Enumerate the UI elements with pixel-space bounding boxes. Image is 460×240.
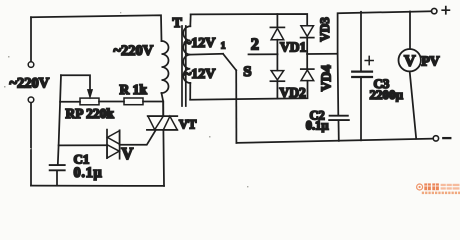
wire: bottom rail left section [31,185,164,187]
svg-text:~220V: ~220V [114,43,154,59]
svg-text:VT: VT [179,117,197,131]
capacitor C1 [50,165,65,185]
voltmeter PV [399,12,421,139]
diode VD1 [270,14,284,54]
terminal: AC input upper [28,62,34,68]
svg-text:V: V [121,144,133,163]
wire: left rail of phase network [58,75,61,165]
wiper arrowhead [88,90,93,98]
transformer T primary winding [162,41,169,93]
svg-text:~220V: ~220V [10,76,50,92]
svg-text:2200µ: 2200µ [370,87,404,102]
svg-text:0.1µ: 0.1µ [74,165,103,181]
svg-text:VD1: VD1 [280,40,306,55]
potentiometer RP body [80,98,99,105]
transformer T core [182,26,186,106]
wire: DC- bottom rail [236,139,433,143]
svg-text:2: 2 [251,34,259,53]
svg-text:RP 220k: RP 220k [66,106,115,121]
wire: AC source lead upper [30,17,32,61]
diac V [107,130,120,159]
wire: rail to diac [59,144,107,146]
capacitor C2 [329,116,349,141]
wire: bridge DC+ node to right rail [307,53,337,55]
switch S blade [223,54,236,70]
wire: AC source lead lower [30,103,32,186]
terminal: DC- output [433,136,438,141]
wire: R to VT/primary node [143,101,163,103]
svg-text:VD2: VD2 [280,85,306,100]
svg-text:1: 1 [221,42,226,52]
svg-text:PV: PV [422,53,440,68]
wire: RP to R [99,101,124,103]
wire: contact 2 stub to bridge mid-left node [249,53,278,55]
diode VD4 [301,54,314,81]
svg-text:VD3: VD3 [318,17,332,41]
resistor R body [124,98,143,105]
wire: switch pole down to DC- rail [235,70,237,143]
svg-text:V: V [404,53,416,70]
scan specks [4,12,248,187]
label + output [442,7,449,14]
watermark logo [417,183,460,194]
wire: primary bottom to R/VT node [162,93,164,116]
triac VT [147,102,177,186]
wire: secondary bottom stem [189,83,191,100]
terminal: DC+ output [432,8,437,13]
svg-text:~12V: ~12V [184,67,215,82]
transformer T secondary winding [183,26,190,83]
svg-text:0.1µ: 0.1µ [306,119,329,133]
wire: secondary middle tap contact 1 [190,53,223,56]
wire: secondary top stem [189,14,191,26]
wire: top rail AC live to transformer primary [31,15,162,41]
svg-text:T: T [173,16,183,31]
svg-text:~12V: ~12V [184,36,215,51]
wire: right rail down to C2 [337,54,340,116]
wire: secondary top tap to bridge top [191,14,308,26]
svg-text:S: S [243,64,251,80]
svg-text:VD4: VD4 [319,65,334,91]
svg-text:R 1k: R 1k [120,82,148,97]
wire: DC+ right rail up and to + terminal [338,11,432,53]
label - output [443,137,450,139]
wire: rail to RP [60,101,80,103]
terminal: AC input lower [28,97,34,103]
wire: secondary bottom tap / bridge AC rail [190,81,307,100]
capacitor C3 [352,12,373,141]
diode VD2 [270,54,284,98]
wire: diac to triac gate [120,130,156,145]
diode VD3 [301,26,314,54]
wire: wiper feedback box [61,75,90,90]
